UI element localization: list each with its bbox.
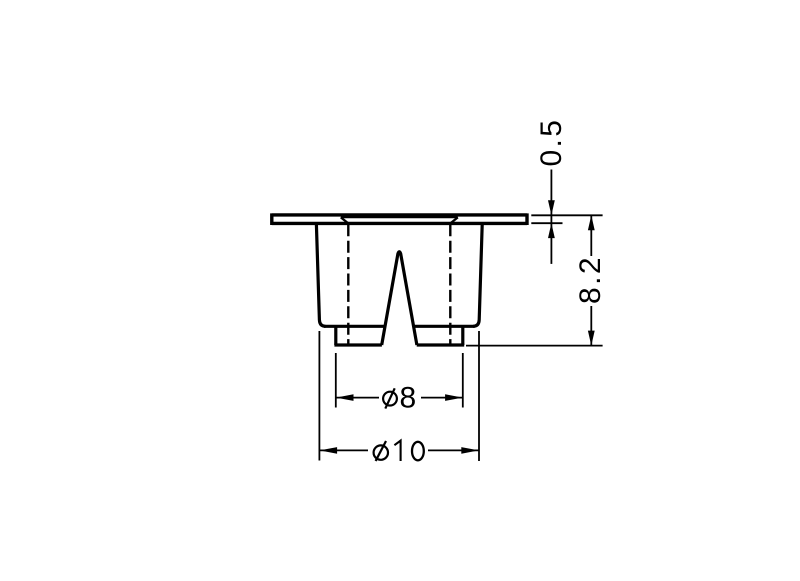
dimension ø10: line right segment [428, 449, 479, 451]
dimension 8.2: dimension line lower segment [590, 306, 592, 346]
dimension ø8: line left segment [336, 397, 379, 399]
body left wall [316, 225, 325, 327]
dimension 0.5: upper arrow (down) [548, 200, 555, 215]
V notch in bottom [382, 252, 417, 345]
flange right chamfer [450, 217, 458, 223]
feet bottom edge left [334, 343, 382, 346]
dimension ø8: left arrow [336, 394, 354, 401]
dimension 8.2: bottom extension line [466, 345, 603, 347]
svg-text:0.5: 0.5 [535, 118, 568, 167]
dimension 8.2: text [574, 255, 607, 304]
hidden bore line right (dashed) [449, 224, 451, 344]
dimension ø10: diameter symbol [374, 441, 388, 461]
dimension 0.5: top extension line [531, 214, 602, 216]
dimension ø10: left arrow [320, 447, 338, 454]
flange left chamfer [341, 217, 349, 223]
right foot outer edge [461, 326, 464, 345]
dimension ø8: left extension line [335, 353, 337, 408]
flange inner recess line [341, 216, 458, 218]
dimension 8.2: dimension line upper segment [590, 215, 592, 256]
dimension ø8: line right segment [421, 397, 463, 399]
dimension 0.5: text [535, 118, 568, 167]
dimension ø8: right arrow [445, 394, 463, 401]
dimension ø8: right extension line [462, 353, 464, 408]
feet bottom edge right [417, 343, 465, 346]
body bottom edge right segment [413, 325, 474, 328]
dimension 0.5: lower arrow (up) [548, 223, 555, 238]
hidden bore line left (dashed) [347, 224, 349, 344]
dimension ø10: digit 1 [394, 441, 400, 461]
dimension ø10: right extension line [478, 331, 480, 461]
svg-text:8.2: 8.2 [574, 255, 607, 304]
dimension 8.2: top arrow (up) [588, 215, 595, 230]
flange outline (top plate of cap) [272, 213, 527, 225]
dimension ø10: line left segment [319, 449, 368, 451]
body right wall [473, 225, 482, 327]
dimension 0.5: bottom extension line [531, 222, 562, 224]
dimension 8.2: bottom arrow (down) [588, 331, 595, 346]
dimension ø10: digit 0 [412, 442, 424, 461]
dimension ø8: diameter symbol [383, 388, 397, 408]
left foot outer edge [334, 326, 337, 345]
dimension 0.5: leader line [550, 170, 552, 264]
dimension ø10: left extension line [318, 331, 320, 461]
dimension ø10: right arrow [461, 447, 479, 454]
svg-text:8: 8 [400, 382, 417, 415]
body bottom edge left segment [324, 325, 385, 328]
